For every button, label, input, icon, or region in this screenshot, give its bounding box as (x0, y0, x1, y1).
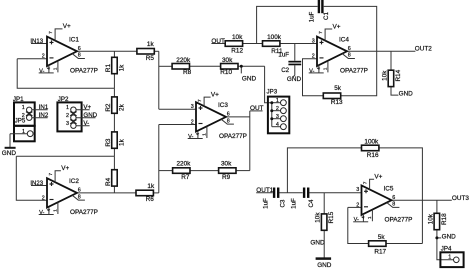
svg-text:GND: GND (442, 233, 457, 240)
svg-text:V+: V+ (63, 23, 71, 30)
svg-text:1: 1 (276, 98, 279, 104)
svg-text:7: 7 (48, 173, 54, 176)
wire C4 to IC5 pin3 (309, 192, 361, 194)
wire R12 to R11 (243, 43, 263, 45)
svg-text:OPA277P: OPA277P (70, 209, 98, 216)
svg-text:GND: GND (83, 112, 97, 119)
header JP5 pin (10, 129, 33, 137)
header JP1 box (14, 102, 35, 125)
svg-text:1: 1 (22, 129, 25, 135)
svg-text:R8: R8 (183, 69, 192, 76)
svg-text:OUT: OUT (211, 38, 225, 45)
header JP4 box (440, 252, 463, 267)
svg-text:1uF: 1uF (308, 11, 315, 22)
svg-text:8: 8 (78, 53, 81, 59)
wire IC2 output to R6 (77, 192, 136, 194)
svg-text:2: 2 (276, 106, 279, 112)
resistor R16 100k (362, 138, 380, 159)
svg-text:V-: V- (188, 134, 193, 140)
svg-text:10k: 10k (382, 70, 389, 81)
svg-text:3: 3 (356, 187, 359, 193)
svg-text:10k: 10k (232, 34, 243, 41)
svg-text:1: 1 (448, 254, 451, 260)
resistor R4 (105, 170, 117, 186)
svg-text:2: 2 (66, 113, 69, 119)
wire IC5 output to OUT3 (392, 199, 452, 201)
wire R18 to JP4 (437, 230, 454, 260)
capacitor C1 1uF (318, 0, 324, 13)
wire up to C1 (257, 6, 318, 43)
svg-text:OPA277P: OPA277P (385, 216, 413, 223)
svg-text:8: 8 (78, 194, 81, 200)
capacitor C4 1uF (303, 188, 310, 198)
wire node B vertical pin2 to R6/R7 (158, 125, 160, 193)
svg-text:C1: C1 (323, 11, 330, 19)
svg-text:8: 8 (392, 202, 395, 208)
svg-text:2: 2 (191, 119, 194, 125)
wire JP5 to ground (9, 134, 11, 148)
svg-text:V-: V- (39, 210, 44, 216)
wire to R18 (436, 200, 438, 213)
svg-text:1: 1 (22, 105, 25, 111)
wire R4 bottom to IC2 output (113, 186, 115, 193)
svg-text:IC4: IC4 (339, 36, 349, 43)
resistor R18 10k (427, 213, 448, 230)
svg-text:7: 7 (48, 31, 54, 34)
svg-text:R2: R2 (105, 103, 112, 112)
wire R7 to R9 (190, 170, 219, 172)
resistor R9 30k (219, 161, 236, 182)
wire R3/R4 junction to R4 (113, 156, 115, 170)
svg-text:6: 6 (78, 188, 81, 194)
svg-text:1k: 1k (118, 64, 125, 72)
wire R10 junction to JP3 branch (238, 65, 265, 67)
svg-text:100k: 100k (364, 138, 379, 145)
svg-text:6: 6 (78, 46, 81, 52)
wire GND stub at R10 junction (240, 66, 242, 73)
header JP3 box (268, 97, 289, 134)
svg-text:IC2: IC2 (69, 178, 79, 185)
wire node B to R7 (159, 170, 173, 172)
wire to R16 (287, 148, 361, 193)
svg-text:V+: V+ (333, 23, 341, 30)
wire IC5 pin2 to R17 (348, 207, 369, 243)
svg-text:R10: R10 (220, 69, 232, 76)
svg-text:R17: R17 (374, 248, 386, 255)
resistor R5 1k (137, 41, 155, 62)
svg-text:V-: V- (354, 217, 359, 223)
svg-text:IC1: IC1 (69, 36, 79, 43)
svg-text:2: 2 (42, 195, 45, 201)
svg-text:3: 3 (276, 114, 279, 120)
svg-text:R13: R13 (331, 99, 343, 106)
svg-text:V+: V+ (83, 104, 91, 111)
header JP1 pins (22, 105, 48, 120)
svg-text:2: 2 (42, 54, 45, 60)
junction JP3 pin3 (270, 117, 273, 120)
svg-text:IN2: IN2 (39, 112, 49, 119)
svg-text:JP3: JP3 (267, 88, 278, 95)
svg-text:V+: V+ (211, 91, 219, 98)
op-amp IC1 OPA277P (39, 23, 98, 74)
wire IC3 feedback vertical (249, 111, 251, 171)
wire IN13 label stub (31, 43, 47, 45)
wire OUT label to R12 (211, 43, 225, 45)
svg-text:100k: 100k (267, 34, 282, 41)
svg-text:R14: R14 (395, 69, 402, 81)
wire C3 to C4 (279, 192, 303, 194)
header JP2 box (57, 102, 81, 131)
svg-text:OPA277P: OPA277P (340, 67, 368, 74)
wire R15 to ground (323, 230, 325, 258)
header JP2 pins (66, 105, 96, 128)
wire R17 to feedback vertical (386, 243, 422, 245)
resistor R1 1k (105, 57, 126, 73)
junction R18 bottom (435, 236, 438, 239)
wire R11 to IC4 pin3 (280, 43, 317, 45)
op-amp IC2 OPA277P (39, 165, 98, 216)
wire down to JP3 pin1 (265, 66, 272, 102)
wire C2 to ground (294, 65, 296, 75)
wire R1 top to IC1 output (113, 51, 115, 57)
svg-text:R12: R12 (231, 48, 243, 55)
resistor R8 220k (172, 57, 192, 76)
svg-text:1uF: 1uF (263, 198, 270, 209)
svg-text:R4: R4 (105, 177, 112, 186)
op-amp IC4 OPA277P (309, 23, 368, 74)
wire IC3 output (226, 116, 250, 118)
wire to R14 (390, 51, 392, 70)
wire C1 to R13 feedback loop (324, 6, 377, 95)
resistor R14 10k (382, 69, 403, 86)
wire R1 bottom (113, 74, 115, 89)
svg-text:R15: R15 (328, 211, 335, 223)
svg-text:IN23: IN23 (30, 181, 43, 187)
svg-text:C2: C2 (281, 67, 289, 74)
svg-text:C4: C4 (308, 199, 315, 207)
svg-text:1k: 1k (147, 41, 155, 48)
junction JP3 pin1 (270, 101, 273, 104)
svg-text:8: 8 (227, 118, 230, 124)
svg-text:2k: 2k (118, 103, 125, 111)
svg-text:GND: GND (2, 150, 17, 157)
resistor R3 1k (105, 132, 126, 148)
capacitor C3 1uF (273, 188, 280, 198)
wire IC1 pin2 feedback loop (17, 59, 114, 88)
svg-text:V+: V+ (61, 165, 69, 172)
svg-text:GND: GND (399, 90, 414, 97)
wire to R15 (323, 193, 325, 215)
svg-text:3: 3 (191, 104, 194, 110)
svg-text:8: 8 (348, 53, 351, 59)
svg-text:R1: R1 (105, 63, 112, 72)
svg-text:10k: 10k (315, 212, 322, 223)
svg-text:10k: 10k (427, 213, 434, 224)
wire IC1 output to R5 (77, 50, 137, 52)
header JP4 pin (448, 254, 459, 262)
wire IC3 pin2 (159, 124, 196, 126)
svg-text:7: 7 (318, 31, 324, 34)
svg-text:IC3: IC3 (218, 102, 228, 109)
resistor R11 100k (263, 34, 283, 55)
wire IC1 pin2 (17, 58, 47, 60)
wire R16 to output feedback (379, 148, 423, 244)
svg-text:R5: R5 (146, 55, 155, 62)
svg-text:2: 2 (356, 203, 359, 209)
wire C2 top (294, 44, 296, 61)
svg-text:GND: GND (242, 76, 257, 83)
svg-text:6: 6 (227, 112, 230, 118)
resistor R13 5k (323, 85, 343, 106)
svg-text:R6: R6 (146, 196, 155, 203)
svg-text:7: 7 (362, 181, 368, 184)
svg-text:GND: GND (310, 239, 325, 246)
junction R10/GND/JP3 (240, 65, 243, 68)
wire IC4 output to OUT2 (347, 50, 415, 52)
wire R9 to feedback vertical (236, 170, 250, 172)
svg-text:R3: R3 (105, 138, 112, 147)
svg-text:3: 3 (312, 38, 315, 44)
wire R3/R4 junction to IC2 feedback (16, 155, 114, 157)
wire R6 to node B (153, 192, 158, 194)
svg-text:30k: 30k (222, 57, 233, 64)
svg-text:1k: 1k (118, 138, 125, 146)
wire R5 to node A vertical (154, 50, 159, 52)
svg-text:IN1: IN1 (39, 104, 49, 111)
wire node A vertical down to IC3 pin3 (158, 51, 160, 109)
svg-text:GND: GND (287, 76, 302, 83)
svg-text:1uF: 1uF (291, 198, 298, 209)
resistor R2 2k (105, 97, 126, 113)
resistor R6 1k (136, 183, 155, 203)
svg-text:R16: R16 (367, 152, 379, 159)
wire R14 to ground label (391, 87, 398, 96)
resistor R17 5k (369, 234, 387, 255)
resistor R12 10k (225, 34, 243, 54)
wire IC5 pin2 (348, 206, 362, 208)
svg-text:V-: V- (83, 120, 89, 127)
svg-text:R7: R7 (181, 174, 190, 181)
svg-text:6: 6 (348, 46, 351, 52)
svg-text:2: 2 (312, 54, 315, 60)
svg-text:5k: 5k (378, 234, 386, 241)
wire R1/R2 junction to R2 (113, 88, 115, 97)
svg-text:R9: R9 (222, 174, 231, 181)
svg-text:7: 7 (197, 99, 203, 102)
ground symbol at JP5 (5, 147, 16, 149)
svg-text:5k: 5k (334, 85, 342, 92)
wire R13 to IC4 pin2 (303, 59, 324, 96)
svg-text:1k: 1k (147, 183, 155, 190)
svg-text:220k: 220k (176, 57, 191, 64)
ground symbol below R15 (316, 257, 332, 260)
svg-text:OUT3: OUT3 (452, 195, 469, 202)
svg-text:1: 1 (66, 105, 69, 111)
svg-text:OPA277P: OPA277P (70, 67, 98, 74)
svg-text:R18: R18 (441, 213, 448, 225)
svg-text:1uF: 1uF (278, 52, 289, 59)
svg-text:30k: 30k (221, 161, 232, 168)
wire R2 to R3 (113, 113, 115, 132)
wire IN23 label stub (31, 185, 47, 187)
wire to IC3 pin3 (159, 108, 196, 110)
wire R3 bottom (113, 148, 115, 156)
svg-text:220k: 220k (177, 161, 192, 168)
resistor R7 220k (173, 161, 192, 182)
resistor R15 10k (315, 211, 336, 230)
svg-text:IN13: IN13 (30, 39, 43, 45)
svg-text:V-: V- (39, 68, 44, 74)
wire GND label stub at R18 (437, 237, 441, 239)
junction JP3 pin2 (270, 109, 273, 112)
svg-text:3: 3 (66, 121, 69, 127)
svg-text:6: 6 (392, 195, 395, 201)
wire node A to R8 (159, 65, 172, 67)
svg-text:JP5: JP5 (15, 117, 26, 124)
wire JP3 pin bus (271, 103, 273, 127)
svg-text:GND: GND (317, 262, 332, 269)
svg-text:V-: V- (309, 68, 314, 74)
svg-text:OUT: OUT (250, 105, 264, 112)
svg-text:4: 4 (276, 122, 279, 128)
capacitor C2 1uF (288, 61, 301, 65)
svg-text:OUT2: OUT2 (415, 45, 432, 52)
svg-text:OUT1: OUT1 (256, 187, 273, 194)
wire OUT1 to C3 (256, 192, 273, 194)
svg-text:IC5: IC5 (384, 185, 394, 192)
svg-text:OPA277P: OPA277P (219, 133, 247, 140)
resistor R10 30k (220, 57, 238, 76)
wire IC2 pin2 feedback (16, 156, 47, 200)
wire R8 to R10 (190, 65, 221, 67)
wire OUT label stub at IC3 (250, 110, 263, 112)
op-amp IC3 OPA277P (188, 91, 247, 140)
svg-text:V+: V+ (374, 174, 382, 181)
header JP3 pins (272, 98, 287, 129)
header JP5 box (14, 126, 35, 142)
svg-text:C3: C3 (280, 199, 287, 207)
op-amp IC5 OPA277P (353, 174, 412, 224)
